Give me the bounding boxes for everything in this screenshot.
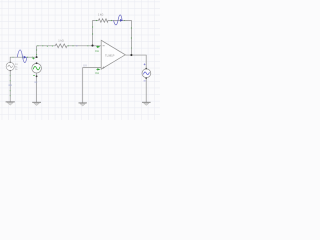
V2 minus polarity (blue): [144, 80, 146, 82]
wire: AC source top to junction A: [10, 57, 36, 62]
svg-text:0 A: 0 A: [95, 72, 99, 75]
probe P1 arrowhead: [24, 56, 27, 59]
junction node C (output / feedback): [130, 54, 132, 56]
svg-text:0 A: 0 A: [95, 50, 99, 53]
ground G2 (green source): [32, 102, 41, 105]
resistor R2: [98, 19, 108, 23]
AC voltage source V1: [6, 62, 14, 72]
green source/probe M1: [32, 62, 42, 77]
resistor R1: [55, 44, 67, 48]
blue output source/probe V2: [142, 68, 151, 79]
svg-text:0 V: 0 V: [83, 66, 87, 68]
wire: AC source bottom to ground: [9, 71, 11, 102]
probe P2 arrowhead: [120, 19, 123, 22]
current dots on AC lower wire: [10, 75, 11, 96]
current arrow at inverting input (green): [96, 46, 99, 48]
V1 minus polarity label: [9, 84, 12, 86]
svg-text:TL081P: TL081P: [105, 54, 115, 58]
wire: junction A up to input rail: [36, 46, 38, 57]
ground G4 (output source): [142, 102, 151, 105]
wire: feedback left leg up: [93, 21, 99, 46]
wire: green source bottom to ground: [36, 73, 38, 102]
junction node B (inverting input / feedback): [91, 45, 93, 47]
M1 lower minus label: [34, 81, 37, 83]
wire: op-amp non-inverting input to ground leg: [83, 68, 102, 103]
ground G1 (AC source): [6, 102, 15, 105]
blue current dot on input rail: [76, 45, 77, 46]
ground G3 (op-amp + input): [79, 103, 87, 106]
probe sine marker P1 (input signal): [17, 50, 27, 63]
probe sine marker P2 (output signal, inverted): [114, 15, 123, 25]
current arrow at non-inverting input (green): [96, 69, 99, 71]
M1 plus polarity (green): [32, 57, 34, 59]
svg-text:1 kΩ: 1 kΩ: [58, 39, 63, 43]
wire: feedback top rail to right corner and down to output: [108, 21, 131, 56]
junction node A: [36, 56, 38, 58]
wire: R1 to op-amp inverting input: [67, 45, 101, 47]
wire: input rail left segment to R1: [37, 45, 56, 47]
svg-text:1 kΩ: 1 kΩ: [98, 12, 103, 16]
wire: below blue source to ground: [145, 78, 147, 103]
wire: op-amp output to right corner: [125, 55, 146, 69]
M1 minus polarity (green): [33, 75, 35, 77]
V2 plus polarity (blue): [144, 63, 146, 65]
op-amp U1: [101, 40, 125, 69]
green current-flow dots: [13, 20, 132, 58]
